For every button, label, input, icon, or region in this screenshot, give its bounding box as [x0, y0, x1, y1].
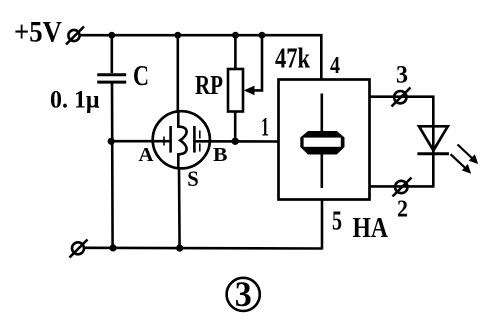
- gas sensor heater squiggle: [178, 112, 186, 169]
- svg-text:C: C: [133, 60, 149, 92]
- wire lead B: [195, 140, 280, 143]
- svg-text:A: A: [139, 145, 154, 166]
- node junction top rail / capacitor branch: [108, 32, 115, 39]
- terminal 3: [392, 88, 411, 107]
- node junction bottom rail / capacitor branch: [109, 244, 116, 251]
- svg-text:3: 3: [235, 274, 252, 314]
- wire RP bottom lead: [234, 112, 237, 142]
- figure number 3 circled: [227, 274, 260, 314]
- svg-text:+5V: +5V: [14, 16, 62, 49]
- svg-text:1: 1: [261, 113, 269, 142]
- resistor RP body: [228, 69, 243, 112]
- node junction A lead / capacitor branch: [108, 138, 115, 145]
- svg-text:4: 4: [330, 53, 340, 79]
- buzzer HA box: [279, 80, 370, 200]
- gas sensor electrode tick B: [199, 131, 201, 139]
- wire RP wiper branch: [252, 35, 262, 90]
- RP wiper arrowhead: [244, 86, 255, 96]
- svg-text:B: B: [213, 145, 228, 166]
- svg-text:5: 5: [332, 206, 342, 236]
- wire lead A: [111, 140, 171, 143]
- wire LED branch: [432, 97, 435, 187]
- wire sensor heater top lead: [177, 35, 180, 113]
- node junction bottom rail / S lead: [176, 245, 183, 252]
- LED D triangle: [419, 126, 448, 150]
- wire bottom rail: [85, 247, 323, 250]
- svg-text:S: S: [187, 166, 199, 191]
- wire pin3 lead: [370, 95, 435, 98]
- gas sensor electrode tick A: [163, 137, 165, 146]
- buzzer internal top lead: [320, 94, 323, 132]
- svg-text:2: 2: [397, 197, 408, 223]
- wire sensor S lead: [178, 168, 181, 249]
- node junction top rail / RP top: [232, 32, 239, 39]
- svg-text:RP: RP: [195, 70, 223, 100]
- wire pin2 lead: [370, 185, 435, 188]
- LED light arrow lower: [451, 154, 472, 174]
- wire capacitor branch lower: [111, 84, 114, 249]
- LED light arrow upper: [458, 145, 479, 165]
- gas sensor electrode plate B: [193, 126, 196, 153]
- terminal 2: [393, 178, 412, 197]
- buzzer internal bottom lead: [320, 155, 323, 189]
- buzzer piezo element: [300, 131, 344, 155]
- power terminal +5V input: [66, 27, 84, 45]
- LED cathode bar: [417, 152, 449, 155]
- capacitor C: [97, 75, 126, 82]
- wire pin5 lead: [321, 200, 324, 250]
- svg-text:3: 3: [396, 62, 408, 89]
- svg-text:0. 1μ: 0. 1μ: [50, 87, 100, 114]
- node junction top rail / RP wiper: [259, 32, 266, 39]
- wire top rail: [80, 35, 321, 79]
- ground terminal bottom left: [70, 240, 88, 258]
- node junction top rail / sensor heater: [174, 32, 181, 39]
- gas sensor envelope circle: [153, 111, 210, 168]
- svg-text:HA: HA: [353, 213, 389, 244]
- svg-text:47k: 47k: [275, 44, 310, 75]
- wire RP top lead: [234, 35, 237, 69]
- node junction RP bottom / lead B: [232, 138, 239, 145]
- wire capacitor branch upper: [111, 35, 114, 73]
- gas sensor electrode plate A: [169, 126, 172, 153]
